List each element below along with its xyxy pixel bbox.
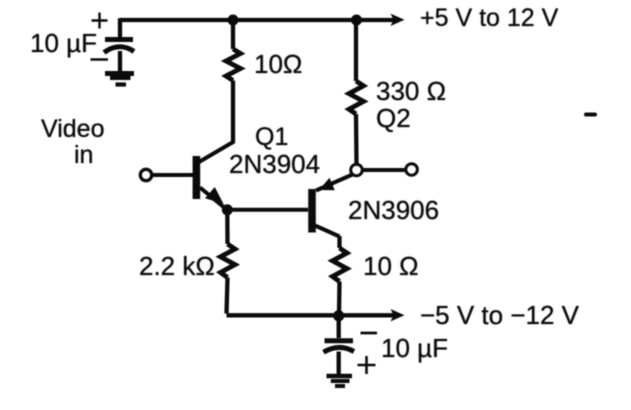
wire from R2 down to output node — [354, 114, 359, 164]
wire from bottom rail down to capacitor C2 — [337, 316, 341, 338]
wire bottom rail — [227, 313, 398, 317]
resistor R1 10 ohm (collector of Q1) — [226, 49, 241, 81]
value label 330 ohm (R2) — [376, 76, 446, 107]
wire Q2 collector down to resistor R4 — [337, 236, 341, 248]
node top rail arrow to +supply — [391, 14, 405, 26]
wire between output circles — [363, 168, 406, 172]
resistor R2 330 ohm — [349, 81, 364, 114]
node bottom rail arrow to -supply — [391, 309, 405, 321]
wire from top rail down to capacitor C1 — [118, 18, 122, 37]
ground (below C1) — [105, 74, 134, 85]
node junction dot bottom rail / C2 — [333, 310, 344, 321]
net label +5 V to 12 V — [420, 4, 558, 33]
C2 plus sign — [358, 356, 376, 374]
C2 minus sign — [361, 332, 378, 335]
value label 10 Ohm (R4) — [363, 251, 419, 282]
node junction dot (Q1 emitter / Q2 base / R3) — [222, 204, 233, 215]
wire from R1 to Q1 collector — [231, 81, 235, 144]
resistor R3 2.2 kOhm — [221, 244, 236, 278]
part label 2N3904 (Q1) — [229, 149, 320, 180]
wire from top rail to resistor R1 — [231, 20, 235, 49]
node junction dot at 10-ohm resistor / top rail — [228, 15, 239, 26]
wire from R3 to bottom rail corner — [227, 278, 228, 314]
C1 plus sign — [92, 13, 108, 29]
wire from junction down to resistor R3 — [225, 210, 229, 244]
net label -5 V to -12 V — [420, 300, 579, 331]
ref label Q1 — [255, 123, 288, 152]
capacitor C1 10uF (top left, polarized) — [104, 40, 134, 72]
node output terminal circle A — [351, 164, 363, 176]
node label Video in — [41, 115, 105, 144]
stray scan speck — [586, 113, 595, 117]
value label 10 ohm (R1) — [254, 49, 302, 80]
node input terminal circle — [140, 169, 151, 180]
transistor Q2 2N3906 (PNP) — [308, 175, 352, 237]
capacitor C2 10uF (bottom, polarized) — [324, 341, 355, 374]
node label Video in (line 2) — [74, 141, 93, 170]
wire input to Q1 base — [152, 173, 193, 177]
resistor R4 10 ohm (bottom) — [333, 248, 348, 282]
ref label Q2 — [376, 103, 411, 134]
wire from junction to Q2 base — [227, 208, 308, 212]
wire from R4 to bottom rail — [337, 282, 342, 316]
ground (below C2) — [327, 376, 353, 386]
value label 10 uF (C2) — [381, 333, 448, 364]
node junction dot at 330-ohm resistor / top rail — [351, 15, 362, 26]
C1 minus sign — [91, 58, 109, 61]
node output terminal circle B — [406, 164, 418, 176]
value label 10 uF (C1) — [30, 28, 97, 59]
value label 2.2 kOhm (R3) — [139, 251, 215, 282]
wire from top rail to resistor R2 — [354, 20, 358, 81]
wire top rail — [120, 18, 397, 22]
part label 2N3906 (Q2) — [348, 195, 439, 226]
transistor Q1 2N3904 (NPN) — [193, 142, 234, 210]
